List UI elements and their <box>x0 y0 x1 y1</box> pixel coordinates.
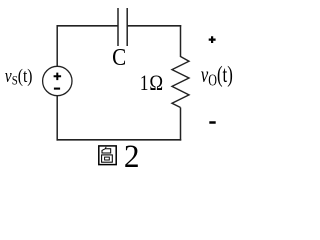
wire left upper <box>56 25 58 67</box>
wire right lower <box>180 108 182 141</box>
voltage source VS circle <box>43 66 72 95</box>
caption character tu (figure) outer box <box>99 146 116 165</box>
wire right upper <box>180 25 182 57</box>
svg-text:vS(t): vS(t) <box>5 66 33 88</box>
wire top-left segment <box>57 25 119 27</box>
svg-text:C: C <box>112 44 126 71</box>
caption number 2 <box>124 137 140 174</box>
resistor value label ohm <box>149 72 163 96</box>
voltage source plus mark <box>54 73 62 81</box>
output plus polarity <box>209 36 216 43</box>
caption character tu inner top box <box>102 149 111 153</box>
caption character tu innermost box <box>105 157 110 160</box>
wire left lower <box>56 96 58 141</box>
wire top-right segment <box>127 25 181 27</box>
svg-text:1: 1 <box>140 71 149 96</box>
voltage source minus mark <box>54 88 60 90</box>
resistor R 1-ohm zigzag <box>172 57 189 108</box>
source label vS(t) <box>5 66 33 88</box>
svg-text:Ω: Ω <box>149 72 163 96</box>
output label vO(t) <box>201 63 233 91</box>
wire bottom <box>57 139 182 141</box>
capacitor value label C <box>112 44 126 71</box>
caption character tu inner top tick <box>105 147 106 149</box>
caption character tu inner bottom box <box>102 155 113 162</box>
resistor value label 1 <box>140 71 149 96</box>
svg-text:vO(t): vO(t) <box>201 63 233 91</box>
capacitor C left plate <box>117 8 119 46</box>
output minus polarity <box>209 121 215 124</box>
capacitor C right plate <box>126 8 128 46</box>
svg-text:2: 2 <box>124 137 140 174</box>
